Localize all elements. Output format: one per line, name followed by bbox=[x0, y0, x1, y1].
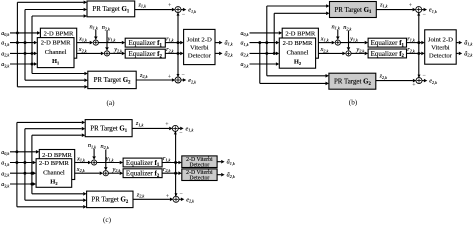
svg-text:2-D BPMR: 2-D BPMR bbox=[285, 31, 315, 38]
svg-text:x2,k: x2,k bbox=[76, 166, 85, 174]
svg-text:Detector: Detector bbox=[189, 163, 209, 169]
svg-text:r2,k: r2,k bbox=[407, 46, 415, 54]
svg-text:Equalizer f2: Equalizer f2 bbox=[129, 50, 163, 59]
svg-text:−: − bbox=[423, 73, 427, 79]
svg-text:Detector: Detector bbox=[188, 53, 212, 60]
svg-text:a1,k: a1,k bbox=[1, 161, 9, 168]
svg-text:y1,k: y1,k bbox=[105, 155, 114, 163]
svg-text:Equalizer f1: Equalizer f1 bbox=[126, 159, 160, 168]
svg-text:a2,k: a2,k bbox=[241, 52, 249, 59]
svg-text:r2,k: r2,k bbox=[163, 166, 171, 174]
svg-text:x2,k: x2,k bbox=[78, 46, 87, 54]
svg-text:â2,k: â2,k bbox=[227, 172, 235, 180]
svg-text:Equalizer f2: Equalizer f2 bbox=[126, 170, 160, 179]
svg-text:Joint 2-D: Joint 2-D bbox=[187, 36, 212, 43]
svg-text:2-D BPMR: 2-D BPMR bbox=[41, 40, 71, 47]
svg-text:n1,k: n1,k bbox=[332, 23, 340, 31]
svg-text:r1,k: r1,k bbox=[166, 35, 174, 43]
svg-text:â1,k: â1,k bbox=[225, 40, 233, 48]
svg-text:â2,k: â2,k bbox=[464, 50, 472, 58]
svg-text:Equalizer f1: Equalizer f1 bbox=[129, 39, 163, 48]
svg-text:z2,k: z2,k bbox=[136, 191, 145, 199]
svg-text:â2,k: â2,k bbox=[225, 50, 233, 58]
svg-text:z2,k: z2,k bbox=[139, 72, 148, 80]
svg-text:a3,k: a3,k bbox=[1, 62, 9, 69]
svg-text:Equalizer f1: Equalizer f1 bbox=[371, 39, 405, 48]
svg-text:a0,k: a0,k bbox=[1, 31, 9, 38]
svg-text:(b): (b) bbox=[349, 98, 358, 106]
svg-text:(c): (c) bbox=[103, 216, 112, 224]
svg-text:e1,k: e1,k bbox=[188, 7, 196, 15]
svg-text:z1,k: z1,k bbox=[135, 120, 144, 128]
svg-text:n1,k: n1,k bbox=[90, 23, 98, 31]
svg-text:e1,k: e1,k bbox=[186, 126, 194, 134]
svg-text:y1,k: y1,k bbox=[107, 35, 116, 43]
svg-text:−: − bbox=[182, 12, 186, 18]
svg-text:r1,k: r1,k bbox=[163, 155, 171, 163]
svg-text:2-D BPMR: 2-D BPMR bbox=[44, 31, 74, 38]
svg-text:Equalizer f2: Equalizer f2 bbox=[371, 50, 405, 59]
svg-text:y1,k: y1,k bbox=[349, 35, 358, 43]
svg-text:Detector: Detector bbox=[429, 53, 453, 60]
svg-text:+: + bbox=[409, 3, 413, 9]
svg-text:−: − bbox=[182, 72, 186, 78]
svg-text:z1,k: z1,k bbox=[379, 1, 388, 9]
svg-text:â1,k: â1,k bbox=[227, 159, 235, 167]
svg-text:(a): (a) bbox=[107, 99, 116, 107]
svg-text:Channel: Channel bbox=[287, 50, 309, 57]
svg-text:Viterbi: Viterbi bbox=[190, 45, 209, 52]
svg-text:z2,k: z2,k bbox=[379, 73, 388, 81]
svg-text:n2,k: n2,k bbox=[343, 24, 351, 32]
svg-text:a1,k: a1,k bbox=[1, 41, 9, 48]
svg-text:a1,k: a1,k bbox=[241, 41, 249, 48]
svg-text:x1,k: x1,k bbox=[76, 155, 85, 163]
svg-text:Viterbi: Viterbi bbox=[431, 45, 450, 52]
svg-text:e2,k: e2,k bbox=[188, 77, 196, 85]
svg-text:r2,k: r2,k bbox=[166, 46, 174, 54]
svg-text:n1,k: n1,k bbox=[88, 142, 96, 150]
svg-text:−: − bbox=[423, 12, 427, 18]
svg-text:a2,k: a2,k bbox=[1, 52, 9, 59]
svg-text:x1,k: x1,k bbox=[78, 35, 87, 43]
svg-text:2-D BPMR: 2-D BPMR bbox=[39, 160, 69, 167]
svg-text:a3,k: a3,k bbox=[1, 182, 9, 189]
svg-text:z1,k: z1,k bbox=[137, 1, 146, 9]
svg-text:−: − bbox=[180, 192, 184, 198]
svg-text:r1,k: r1,k bbox=[407, 35, 415, 43]
svg-text:x1,k: x1,k bbox=[320, 35, 329, 43]
svg-text:n2,k: n2,k bbox=[102, 24, 110, 32]
svg-text:y2,k: y2,k bbox=[112, 166, 121, 174]
svg-text:Joint 2-D: Joint 2-D bbox=[428, 36, 453, 43]
svg-text:Channel: Channel bbox=[43, 169, 65, 176]
svg-text:a0,k: a0,k bbox=[241, 31, 249, 38]
svg-text:a0,k: a0,k bbox=[1, 150, 9, 157]
svg-text:y2,k: y2,k bbox=[355, 46, 364, 54]
svg-text:x2,k: x2,k bbox=[320, 46, 329, 54]
svg-text:n2,k: n2,k bbox=[101, 143, 109, 151]
svg-text:2-D BPMR: 2-D BPMR bbox=[283, 40, 313, 47]
svg-text:a3,k: a3,k bbox=[241, 62, 249, 69]
svg-text:2-D BPMR: 2-D BPMR bbox=[42, 152, 72, 159]
svg-text:+: + bbox=[412, 83, 416, 89]
svg-text:Detector: Detector bbox=[189, 176, 209, 182]
svg-text:+: + bbox=[165, 122, 169, 128]
svg-text:Channel: Channel bbox=[45, 49, 67, 56]
svg-text:e1,k: e1,k bbox=[429, 7, 437, 15]
svg-text:e2,k: e2,k bbox=[429, 78, 437, 86]
svg-text:e2,k: e2,k bbox=[186, 196, 194, 204]
svg-text:y2,k: y2,k bbox=[113, 46, 122, 54]
svg-text:â1,k: â1,k bbox=[464, 40, 472, 48]
svg-text:a2,k: a2,k bbox=[1, 171, 9, 178]
svg-text:+: + bbox=[168, 3, 172, 9]
svg-text:−: − bbox=[179, 131, 183, 137]
